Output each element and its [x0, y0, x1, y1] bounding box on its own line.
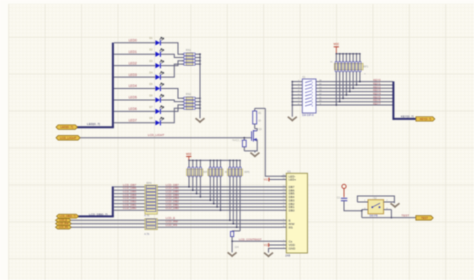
wire LCD_DB6: [114, 189, 146, 191]
port LED[0..7]: [56, 125, 78, 130]
LED D3: [155, 63, 160, 68]
svg-text:VCC: VCC: [186, 152, 192, 156]
wire LCD_RS: [71, 226, 281, 228]
LED D6 emission arrows: [160, 94, 164, 97]
pin 4 RS: [281, 226, 286, 228]
resistor element RP1-8: [359, 53, 361, 55]
capacitor C1: [341, 197, 347, 199]
svg-text:VCC: VCC: [264, 179, 269, 182]
wire KEY0: [316, 81, 393, 83]
svg-text:LCD_CONTRAST: LCD_CONTRAST: [239, 237, 262, 241]
resistor element RP4: [146, 209, 156, 211]
resistor element RP6: [146, 223, 156, 225]
svg-text:D4: D4: [149, 70, 153, 74]
svg-text:LCD_DB[0..7]: LCD_DB[0..7]: [89, 212, 108, 216]
wire LED0 to resistor pack: [161, 43, 184, 54]
pin 13 DB6: [281, 189, 286, 191]
DIP pin left 2: [292, 84, 302, 86]
wire RP5-4 to contrast resistor: [232, 230, 240, 232]
svg-text:NetQ1_1: NetQ1_1: [232, 139, 242, 142]
LED D5: [155, 86, 160, 91]
wire LCD_DB4: [114, 196, 146, 198]
resistor element RP4: [146, 202, 156, 204]
pin 7 DB0: [281, 209, 286, 211]
svg-text:RP1: RP1: [363, 64, 369, 68]
wire KEY6: [316, 101, 393, 103]
resistor element RN2: [182, 104, 184, 106]
wire LED2 left: [114, 65, 155, 67]
wire pin3 down: [361, 210, 363, 218]
switch element 8: [304, 104, 307, 107]
pin 2: [384, 201, 395, 203]
wire LCD_LIGHT: [80, 137, 251, 139]
resistor element RP1-3: [342, 53, 344, 55]
switch element 1: [304, 81, 307, 84]
DIP pin left 7: [292, 101, 302, 103]
wire VCC rail: [336, 53, 360, 55]
bus LCD_DB[0..7]: [112, 186, 114, 216]
wire LCD_CONTRAST: [232, 240, 281, 242]
pin 10 DB3: [281, 199, 286, 201]
svg-text:D3: D3: [149, 59, 153, 63]
pin 1 GND: [281, 247, 286, 249]
wire contrast to ground: [231, 241, 233, 252]
pin 2 VDD: [281, 244, 286, 246]
resistor pack RP2 body: [187, 169, 203, 176]
wire drain: [255, 129, 258, 131]
resistor element RP1-5: [349, 53, 351, 55]
LED D7 emission arrows: [160, 106, 164, 109]
port KEY[0..7]: [416, 117, 435, 122]
resistor element RP3: [210, 160, 212, 162]
resistor pack RP4 body: [145, 185, 157, 214]
wire LED0 left: [114, 42, 155, 44]
wire KEY4: [316, 94, 393, 96]
DIP pin left 6: [292, 97, 302, 99]
svg-text:VCC: VCC: [334, 42, 340, 46]
svg-text:LCD_LIGHT: LCD_LIGHT: [60, 136, 77, 140]
svg-text:U1: U1: [287, 169, 291, 173]
DIP pin left 4: [292, 91, 302, 93]
port LCD_E: [56, 219, 72, 223]
switch element 7: [304, 101, 307, 104]
wire R1 top: [255, 107, 266, 109]
LED D8 emission arrows: [160, 117, 164, 120]
resistor element RP5: [239, 160, 241, 162]
LED D7: [155, 109, 160, 114]
pin 16 LED-: [281, 175, 286, 177]
resistor pack RP1 body: [334, 63, 363, 69]
resistor element RP1-6: [352, 53, 354, 55]
wire LCD_DB5: [114, 193, 146, 195]
switch S2 (push button) body: [368, 200, 384, 214]
svg-text:D1: D1: [149, 36, 153, 40]
resistor element RN1: [182, 57, 184, 59]
svg-text:SW-PB: SW-PB: [369, 214, 378, 218]
resistor element RP4: [146, 199, 156, 201]
bus KEY[0..7]: [392, 81, 394, 120]
port LCD_LIGHT: [56, 136, 80, 141]
svg-text:DB0: DB0: [289, 208, 295, 212]
svg-text:LED5: LED5: [129, 96, 137, 100]
svg-text:D6: D6: [149, 93, 153, 97]
ground (test button): [393, 202, 395, 203]
svg-text:TEST: TEST: [401, 213, 409, 217]
switch element 5: [304, 94, 307, 97]
junction gate/R pulldown: [243, 137, 245, 139]
resistor element RP6: [146, 226, 156, 228]
svg-text:LED1: LED1: [129, 50, 137, 54]
wire LED7 left: [114, 122, 155, 124]
resistor element RN2: [182, 107, 184, 109]
resistor element RP5: [236, 160, 238, 162]
resistor R3 (contrast): [231, 230, 233, 233]
svg-text:LED2: LED2: [129, 61, 137, 65]
resistor pack RP3 body: [208, 169, 223, 176]
wire GND pin to ground: [269, 248, 282, 252]
LED D3 emission arrows: [160, 60, 164, 63]
svg-text:LED4: LED4: [129, 84, 137, 88]
wire LED5 to resistor pack: [161, 100, 184, 102]
DIP pin left 8: [292, 104, 302, 106]
pin 12 DB5: [281, 193, 286, 195]
svg-text:RP4: RP4: [146, 181, 152, 185]
LED D2: [155, 52, 160, 57]
port LCD_RW: [56, 222, 72, 226]
wire KEY3: [316, 91, 393, 93]
resistor R2 (gate pulldown): [243, 138, 245, 140]
svg-text:TEST: TEST: [421, 216, 428, 220]
svg-text:LED6: LED6: [129, 107, 137, 111]
wire LED7 to resistor pack: [161, 108, 184, 123]
DIP switch S1 body: [302, 79, 316, 113]
svg-text:LED[0..7]: LED[0..7]: [60, 125, 73, 129]
switch element 2: [304, 84, 307, 87]
wire LCD_DB7: [114, 186, 146, 188]
svg-text:KEY[0..7]: KEY[0..7]: [401, 114, 414, 118]
LED D4 emission arrows: [160, 71, 164, 74]
wire LED1 to resistor pack: [161, 54, 184, 57]
resistor pack RP6 body: [145, 219, 157, 230]
svg-text:SW DIP-8: SW DIP-8: [302, 113, 314, 117]
port TEST: [416, 216, 433, 221]
wire resistor packs common to ground: [199, 54, 201, 118]
LED D4: [155, 74, 160, 79]
resistor element RP4: [146, 186, 156, 188]
resistor element RP1-2: [339, 53, 341, 55]
svg-text:LCD_RS: LCD_RS: [166, 223, 178, 227]
junction cap/switch: [361, 210, 363, 212]
switch element 3: [304, 88, 307, 91]
svg-text:LCD_DB[0..7]: LCD_DB[0..7]: [59, 214, 75, 218]
DIP pin left 1: [292, 81, 302, 83]
svg-text:LED+: LED+: [289, 178, 297, 182]
svg-text:D2: D2: [149, 48, 153, 52]
wire LED2 to resistor pack: [161, 61, 184, 66]
wire LED- route: [265, 108, 287, 176]
svg-text:GND: GND: [289, 247, 297, 251]
svg-text:LED[0..7]: LED[0..7]: [87, 122, 100, 126]
svg-text:RS: RS: [289, 225, 293, 229]
switch element 4: [304, 91, 307, 94]
wire LCD_DB2: [114, 203, 146, 205]
wire VCC rail 2: [189, 159, 240, 161]
resistor element RN1: [182, 63, 184, 65]
pin 6 E: [281, 219, 286, 221]
LED D6: [155, 97, 160, 102]
bus LED[0..7] vertical: [112, 43, 114, 128]
wire LCD_DB1: [114, 206, 146, 208]
port LCD_DB[0..7]: [57, 214, 79, 218]
wire LED4 to resistor pack: [161, 89, 184, 99]
wire DIP left common: [291, 82, 293, 117]
resistor element RN2: [182, 97, 184, 99]
svg-text:LED0: LED0: [129, 39, 137, 43]
wire source to ground: [244, 140, 257, 151]
svg-text:D5: D5: [149, 82, 153, 86]
power VCC (LED+): [269, 179, 282, 181]
svg-text:RN2: RN2: [186, 92, 192, 96]
ground (MOSFET): [250, 153, 259, 157]
resistor element RP5: [229, 160, 231, 162]
ground (DIP switch): [288, 117, 297, 121]
resistor element RP5: [233, 160, 235, 162]
power VCC (key pullups): [334, 46, 339, 48]
resistor element RP2: [188, 160, 190, 162]
ground (LED resistor packs): [196, 118, 205, 122]
svg-text:D8: D8: [149, 116, 153, 120]
resistor pack RP5 body: [228, 169, 243, 176]
pin 4: [384, 209, 392, 211]
wire LED3 left: [114, 76, 155, 78]
svg-text:LED3: LED3: [129, 73, 137, 77]
resistor element RP6: [146, 219, 156, 221]
DIP pin left 5: [292, 94, 302, 96]
resistor element RP4: [146, 206, 156, 208]
wire LED1 left: [114, 53, 155, 55]
svg-text:4.7K: 4.7K: [144, 214, 149, 217]
power VCC (VDD): [269, 244, 282, 246]
svg-text:4.7K: 4.7K: [144, 233, 149, 236]
resistor element RP1-1: [336, 53, 338, 55]
wire LED6 left: [114, 110, 155, 112]
ground (LCD): [264, 253, 273, 257]
svg-text:LCD_LIGHT: LCD_LIGHT: [148, 133, 165, 137]
svg-text:KEY[0..7]: KEY[0..7]: [420, 117, 432, 121]
pin 1: [357, 201, 368, 203]
svg-text:KEY7: KEY7: [373, 102, 381, 106]
svg-text:104: 104: [235, 246, 240, 249]
svg-text:D7: D7: [149, 105, 153, 109]
resistor element RP1-4: [346, 53, 348, 55]
svg-text:2X8: 2X8: [285, 254, 290, 258]
transistor Q1 (NMOS): [251, 130, 257, 142]
ground (contrast): [228, 252, 237, 256]
resistor element RP1-7: [356, 53, 358, 55]
pin 9 DB2: [281, 203, 286, 205]
wire KEY2: [316, 87, 393, 89]
wire TEST: [362, 217, 416, 219]
switch S2 glyph: [372, 203, 380, 208]
LCD connector U1 body: [286, 173, 307, 253]
pin 5 R/W: [281, 223, 286, 225]
wire KEY7: [316, 104, 393, 106]
wire LCD_E: [71, 219, 281, 221]
svg-text:RP5: RP5: [244, 170, 250, 174]
resistor element RP2: [196, 160, 198, 162]
resistor element RP3: [216, 160, 218, 162]
LED D1: [155, 40, 160, 45]
wire LED6 to resistor pack: [161, 105, 184, 111]
svg-text:RN1: RN1: [186, 48, 192, 52]
pin 11 DB4: [281, 196, 286, 198]
resistor pack RN1 body: [186, 53, 192, 66]
LED D8: [155, 120, 160, 125]
svg-text:LCD_DB0: LCD_DB0: [123, 206, 137, 210]
wire LED3 to resistor pack: [161, 64, 184, 77]
wire cap to switch: [344, 201, 362, 211]
switch element 6: [304, 98, 307, 101]
LED D2 emission arrows: [160, 49, 164, 52]
resistor element RN2: [182, 101, 184, 103]
resistor R1 (backlight series): [254, 108, 256, 111]
pin 15 LED+: [281, 179, 286, 181]
svg-text:VCC: VCC: [264, 244, 269, 247]
power VCC (LCD pullups): [186, 156, 191, 158]
svg-text:LCD_RS: LCD_RS: [59, 226, 69, 229]
resistor element RP3: [213, 160, 215, 162]
pin 3 Cs: [281, 240, 286, 242]
wire LCD_DB0: [114, 209, 146, 211]
resistor element RP4: [146, 192, 156, 194]
resistor element RP3: [220, 160, 222, 162]
DIP pin left 3: [292, 87, 302, 89]
pin 3: [362, 209, 368, 211]
wire LED4 left: [114, 88, 155, 90]
bus LED[0..7] horizontal: [77, 126, 114, 128]
LED D1 emission arrows: [160, 37, 164, 40]
svg-text:LCD_DB0: LCD_DB0: [166, 206, 180, 210]
wire KEY5: [316, 97, 393, 99]
wire pin4 down: [390, 210, 392, 218]
pin 14 DB7: [281, 186, 286, 188]
resistor element RP4: [146, 196, 156, 198]
wire LCD_DB3: [114, 199, 146, 201]
LED D5 emission arrows: [160, 83, 164, 86]
resistor element RP2: [200, 160, 202, 162]
pin 8 DB1: [281, 206, 286, 208]
wire top rail: [357, 196, 394, 202]
resistor pack RN2 body: [186, 97, 192, 110]
wire LCD_RW: [71, 223, 281, 225]
svg-text:LED7: LED7: [129, 119, 137, 123]
resistor element RP4: [146, 189, 156, 191]
resistor element RN1: [182, 53, 184, 55]
wire LED5 left: [114, 99, 155, 101]
resistor element RN1: [182, 60, 184, 62]
svg-text:S1: S1: [302, 75, 306, 79]
wire KEY1: [316, 84, 393, 86]
port LCD_RS: [56, 225, 72, 229]
resistor element RP2: [192, 160, 194, 162]
power VCC circle (test): [342, 184, 346, 188]
